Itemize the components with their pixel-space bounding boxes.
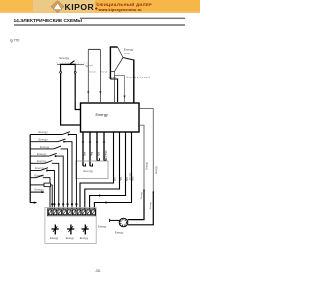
hook pin4 bbox=[104, 158, 106, 160]
ignition unit U2 notch link bbox=[123, 58, 134, 61]
arrowhead lead 2 bbox=[99, 91, 101, 94]
svg-text:Energy: Energy bbox=[40, 145, 50, 149]
resistor R1 bbox=[44, 183, 51, 187]
svg-text:Energy: Energy bbox=[80, 236, 89, 240]
svg-text:Energy: Energy bbox=[39, 130, 49, 134]
svg-text:Energy: Energy bbox=[105, 150, 108, 158]
svg-text:Energy: Energy bbox=[149, 201, 152, 209]
branch 2 wire bbox=[30, 141, 58, 143]
svg-text:Energy: Energy bbox=[124, 48, 134, 52]
svg-text:Energy: Energy bbox=[35, 188, 45, 192]
spark plug 1 bbox=[52, 225, 59, 235]
ignition unit U2 left edge bbox=[109, 47, 111, 79]
svg-text:ОФИЦИАЛЬНЫЙ ДИЛЕР: ОФИЦИАЛЬНЫЙ ДИЛЕР bbox=[97, 2, 153, 7]
svg-text:Белый: Белый bbox=[101, 71, 107, 74]
svg-text:Белый: Белый bbox=[89, 71, 95, 74]
wire U1 bottom pin1 bbox=[82, 133, 84, 167]
ignition unit U2 step bbox=[115, 71, 125, 75]
branch 9 arrow bbox=[42, 191, 45, 193]
ignition unit U2 top edge bbox=[110, 46, 118, 48]
svg-text:Чер: Чер bbox=[90, 151, 93, 156]
svg-text:Energy: Energy bbox=[37, 159, 47, 163]
branch 8 wire with resistor bbox=[30, 184, 44, 186]
branch 7 blade bbox=[36, 175, 44, 178]
svg-text:Жел: Жел bbox=[133, 176, 135, 181]
junction dot U2 right bbox=[133, 76, 134, 77]
hook pin3 bbox=[97, 158, 100, 160]
switch S1 bar bbox=[60, 63, 76, 65]
engine panel box bbox=[45, 208, 96, 244]
branch 5 blade bbox=[45, 161, 53, 164]
ignition unit U2 bottom bar bbox=[110, 70, 114, 72]
svg-text:Energy: Energy bbox=[98, 225, 107, 229]
junction dot right bus 1 bbox=[143, 189, 144, 190]
branch 1 blade bbox=[62, 132, 70, 135]
control unit U1 bbox=[81, 103, 140, 132]
svg-text:Бел: Бел bbox=[83, 151, 86, 156]
pin ticks bbox=[82, 141, 84, 143]
svg-text:Energy: Energy bbox=[39, 137, 49, 141]
ground lead T-bar bbox=[110, 219, 120, 221]
svg-text:Energy: Energy bbox=[37, 152, 47, 156]
wire U2 step to box pin bbox=[114, 75, 116, 102]
svg-text:14.ЭЛЕКТРИЧЕСКИЕ СХЕМЫ: 14.ЭЛЕКТРИЧЕСКИЕ СХЕМЫ bbox=[14, 18, 83, 24]
branch 4 wire bbox=[30, 155, 49, 157]
lamp module L1 left lead bbox=[87, 49, 89, 102]
wire U1 bottom pin2 bbox=[89, 133, 91, 167]
wire U1 right pin1 to flywheel bbox=[140, 109, 154, 192]
wire U1 bottom pin6 elbow bbox=[85, 133, 120, 209]
dealer text line 2 bbox=[95, 7, 98, 10]
wire U2 foot to box pin bbox=[110, 79, 117, 102]
ignition unit U2 slant back bbox=[115, 58, 124, 72]
terminal strip bbox=[47, 209, 95, 216]
svg-text:Energy: Energy bbox=[60, 56, 70, 60]
svg-text:Бел: Бел bbox=[115, 176, 117, 181]
arrowhead U2 mid bbox=[123, 96, 125, 99]
svg-text:Energy: Energy bbox=[115, 231, 124, 235]
branch 6 wire bbox=[30, 170, 40, 172]
svg-text:Energy: Energy bbox=[146, 161, 149, 170]
switch terminal B bbox=[74, 71, 76, 73]
spark plug 2 bbox=[67, 225, 74, 235]
flywheel magneto M1 bbox=[119, 218, 128, 227]
junction dots on pins 5-8 bbox=[113, 175, 114, 176]
branch 1 wire bbox=[30, 134, 62, 136]
arrowhead lead 1 bbox=[87, 91, 89, 94]
svg-text:Energy: Energy bbox=[140, 191, 143, 199]
bus end stub bbox=[30, 202, 36, 204]
junction dot right bus 3 bbox=[153, 191, 154, 192]
svg-text:Energy: Energy bbox=[66, 236, 75, 240]
title rule upper bbox=[80, 17, 185, 19]
wire U1 bottom pin8 elbow bbox=[94, 133, 131, 209]
branch 2 blade bbox=[58, 139, 66, 142]
wire U1 bottom pin3 bbox=[96, 133, 98, 161]
svg-text:Черный/белый: Черный/белый bbox=[127, 76, 151, 79]
wire switch B to box bbox=[74, 64, 76, 71]
svg-text:Energy: Energy bbox=[50, 236, 59, 240]
terminal circles above strip bbox=[51, 203, 53, 205]
wire U2 mid to box pin bbox=[124, 75, 126, 102]
svg-text:-35-: -35- bbox=[95, 269, 102, 273]
branch 4 blade bbox=[49, 153, 57, 156]
ignition unit U2 slant right bbox=[118, 47, 124, 58]
svg-text:www.kiporgenerator.ru: www.kiporgenerator.ru bbox=[98, 8, 142, 12]
arrow tick a bbox=[99, 194, 102, 196]
regulator box bbox=[76, 161, 108, 179]
branch 7 wire bbox=[30, 177, 36, 179]
title rule lower bbox=[14, 24, 185, 26]
svg-text:Кра: Кра bbox=[97, 151, 100, 156]
svg-text:Energy: Energy bbox=[124, 53, 130, 55]
svg-text:Чер: Чер bbox=[121, 176, 123, 181]
branch 6 blade bbox=[40, 168, 48, 171]
wire U1 bottom pin5 elbow bbox=[80, 133, 114, 209]
svg-text:Черный: Черный bbox=[109, 76, 117, 79]
header banner background bbox=[0, 0, 200, 13]
lamp module L1 right lead bbox=[99, 49, 101, 102]
svg-text:Energy: Energy bbox=[155, 165, 158, 174]
wire U1 bottom pin7 elbow bbox=[90, 133, 126, 209]
switch S1 wire bbox=[57, 63, 84, 65]
wire U1 right pin2 to flywheel bbox=[140, 125, 144, 190]
svg-text:KIPOR: KIPOR bbox=[65, 2, 95, 12]
hook pin1 bbox=[83, 164, 86, 166]
svg-text:ig 770: ig 770 bbox=[10, 39, 19, 43]
branch 5 wire bbox=[30, 162, 45, 164]
wire U1 bottom pin4 bbox=[103, 133, 105, 161]
wire switch A to box bbox=[60, 64, 62, 71]
spark plug 3 bbox=[82, 225, 89, 235]
svg-text:Energy: Energy bbox=[84, 169, 94, 173]
lamp module L1 top bar bbox=[88, 48, 100, 50]
branch 3 blade bbox=[54, 146, 62, 149]
switch S1 contact blade bbox=[70, 61, 75, 64]
switch terminal A bbox=[60, 71, 62, 73]
branch arrow ticks bbox=[68, 133, 71, 135]
hook pin2 bbox=[90, 164, 93, 166]
lamp module side stub bbox=[86, 66, 88, 68]
branch 9 stub bbox=[30, 191, 44, 193]
svg-text:Energy: Energy bbox=[96, 112, 108, 117]
wire U2 right bold bbox=[133, 60, 135, 103]
arrow tick b bbox=[106, 201, 109, 203]
bus end arrow bbox=[34, 202, 37, 204]
left bus wire bbox=[29, 135, 31, 203]
svg-text:Белый/черный: Белый/черный bbox=[57, 61, 88, 64]
branch 3 wire bbox=[30, 148, 53, 150]
KIPOR logo diamond bbox=[51, 1, 64, 13]
